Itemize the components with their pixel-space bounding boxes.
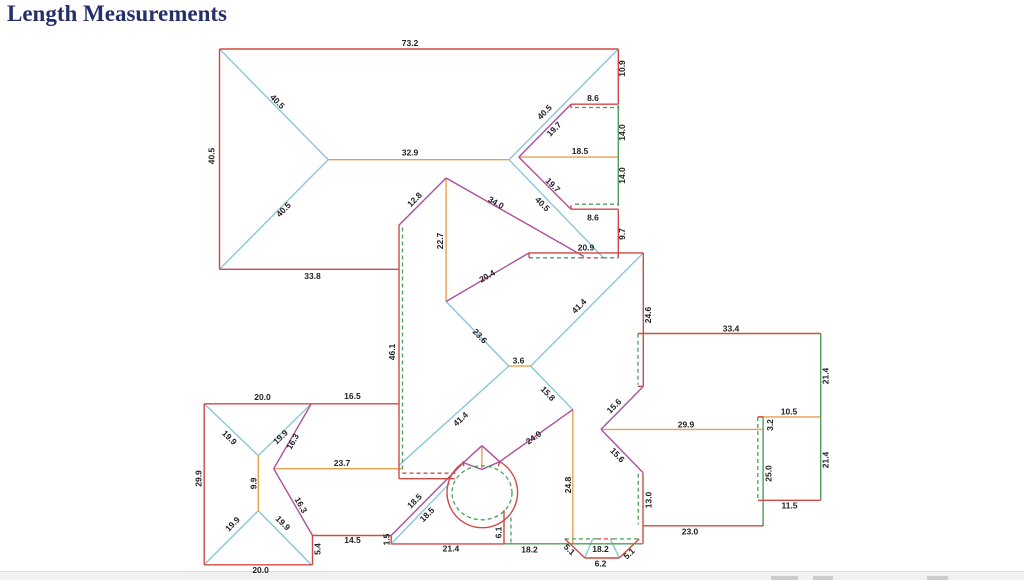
svg-text:18.2: 18.2	[592, 544, 609, 554]
svg-text:20.9: 20.9	[578, 243, 595, 253]
svg-text:20.0: 20.0	[254, 392, 271, 402]
svg-text:33.4: 33.4	[723, 324, 740, 334]
svg-text:40.5: 40.5	[207, 147, 217, 164]
svg-text:21.4: 21.4	[821, 367, 831, 384]
svg-text:46.1: 46.1	[387, 343, 397, 360]
svg-text:5.1: 5.1	[621, 546, 637, 562]
svg-text:33.8: 33.8	[304, 271, 321, 281]
svg-text:18.2: 18.2	[521, 544, 538, 554]
svg-text:23.0: 23.0	[682, 527, 699, 537]
svg-text:10.9: 10.9	[617, 60, 627, 77]
svg-text:32.9: 32.9	[402, 148, 419, 158]
svg-text:14.5: 14.5	[344, 535, 361, 545]
svg-text:15.6: 15.6	[608, 446, 627, 465]
svg-text:9.7: 9.7	[617, 228, 627, 240]
svg-text:18.5: 18.5	[405, 491, 424, 510]
svg-text:29.9: 29.9	[678, 420, 695, 430]
svg-text:20.4: 20.4	[477, 267, 497, 284]
svg-text:24.0: 24.0	[524, 429, 544, 447]
svg-text:3.6: 3.6	[513, 356, 525, 366]
svg-text:40.5: 40.5	[274, 200, 293, 219]
svg-text:11.5: 11.5	[781, 501, 797, 511]
svg-text:25.0: 25.0	[764, 465, 774, 482]
svg-text:8.6: 8.6	[587, 93, 599, 103]
svg-text:9.9: 9.9	[248, 477, 258, 489]
svg-text:18.5: 18.5	[572, 146, 589, 156]
svg-text:19.7: 19.7	[544, 176, 563, 195]
svg-text:21.4: 21.4	[821, 451, 831, 468]
svg-text:24.8: 24.8	[563, 476, 573, 493]
svg-text:20.0: 20.0	[252, 565, 269, 575]
svg-text:19.7: 19.7	[545, 119, 564, 138]
svg-text:41.4: 41.4	[570, 296, 589, 315]
svg-text:23.7: 23.7	[334, 458, 351, 468]
svg-text:24.6: 24.6	[643, 306, 653, 323]
svg-text:6.1: 6.1	[494, 526, 504, 538]
svg-text:40.5: 40.5	[533, 195, 552, 214]
svg-text:40.5: 40.5	[535, 102, 554, 121]
svg-text:6.2: 6.2	[595, 559, 607, 569]
svg-text:34.0: 34.0	[486, 194, 506, 211]
svg-text:73.2: 73.2	[402, 38, 419, 48]
svg-text:8.6: 8.6	[587, 213, 599, 223]
svg-text:41.4: 41.4	[451, 410, 470, 429]
svg-text:1.5: 1.5	[382, 533, 392, 545]
svg-text:12.8: 12.8	[405, 190, 424, 209]
svg-text:5.4: 5.4	[313, 543, 323, 555]
svg-text:22.7: 22.7	[435, 232, 445, 249]
svg-text:21.4: 21.4	[443, 544, 460, 554]
svg-text:3.2: 3.2	[765, 419, 775, 431]
svg-text:14.0: 14.0	[617, 124, 627, 141]
svg-text:16.5: 16.5	[344, 391, 361, 401]
svg-text:15.8: 15.8	[539, 384, 558, 403]
svg-text:10.5: 10.5	[781, 407, 798, 417]
svg-text:13.0: 13.0	[644, 491, 654, 508]
svg-text:15.6: 15.6	[605, 396, 624, 415]
svg-text:40.5: 40.5	[268, 92, 287, 111]
svg-text:18.5: 18.5	[418, 505, 437, 524]
svg-text:29.9: 29.9	[193, 470, 203, 487]
svg-text:19.9: 19.9	[220, 428, 239, 447]
svg-text:14.0: 14.0	[617, 167, 627, 184]
